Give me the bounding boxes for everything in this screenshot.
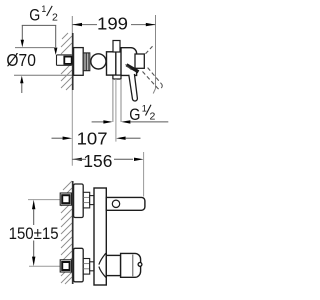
svg-text:G: G: [129, 106, 140, 124]
leader of G1/2 top with two drops: [22, 25, 56, 48]
dimension 199: [72, 13, 155, 93]
svg-text:107: 107: [77, 128, 108, 148]
union nut upper: [83, 192, 89, 208]
outlet centre extension line: [115, 79, 117, 142]
lever handle (solid position): [129, 74, 138, 101]
svg-text:150±15: 150±15: [9, 224, 59, 243]
lever handle (dashed alternate position): [143, 46, 163, 89]
valve body block: [107, 52, 116, 75]
lever neck (dark wedge): [127, 65, 139, 72]
svg-text:2: 2: [150, 111, 156, 123]
lever arm (bottom view, seen from above): [106, 197, 145, 210]
svg-text:2: 2: [52, 12, 58, 24]
wall surface line (top view): [72, 33, 74, 90]
dimension 156: [72, 151, 143, 197]
supply line lower: [29, 265, 64, 267]
supply line upper: [28, 199, 64, 201]
pipe stub lower (bottom view): [60, 260, 71, 272]
svg-text:1: 1: [142, 103, 147, 113]
wall surface line (bottom view): [72, 181, 74, 284]
ball joint: [91, 54, 106, 69]
button on lever arm: [112, 200, 119, 207]
label G1/2 (outlet): [129, 103, 155, 124]
svg-text:1: 1: [41, 4, 46, 14]
arrow onto pipe stub (G1/2): [54, 48, 57, 55]
escutcheon upper (bottom view): [74, 184, 84, 218]
dimension 150±15: [9, 200, 59, 267]
handle wedge on bar: [99, 253, 106, 277]
pipe stub upper (bottom view): [60, 193, 71, 205]
svg-text:Ø70: Ø70: [6, 50, 36, 70]
connector lower: [90, 262, 94, 271]
arrow onto escutcheon top line (Ø70 upper arrow): [21, 40, 24, 48]
svg-text:199: 199: [97, 13, 128, 33]
escutcheon (top view): [74, 48, 84, 76]
nub on dome end: [138, 263, 142, 267]
wall extension line down to 156 dim: [71, 90, 73, 166]
pipe stub behind wall (top view): [57, 55, 72, 65]
connector upper: [90, 196, 94, 205]
label G1/2 (top-left thread): [29, 4, 58, 25]
svg-text:156: 156: [83, 151, 112, 171]
cartridge dome (bottom view): [121, 253, 141, 277]
svg-text:G: G: [29, 7, 40, 25]
cartridge block (bottom view): [106, 255, 120, 275]
escutcheon lower (bottom view): [74, 248, 84, 281]
lever pivot knob: [135, 54, 144, 68]
outlet stub below body: [113, 75, 121, 79]
leader of outlet G1/2: [92, 120, 169, 123]
wall (top view) hatching: [61, 33, 72, 90]
top knob: [113, 41, 120, 53]
cartridge dome: [121, 48, 137, 76]
body bar (bottom view): [94, 188, 106, 285]
dimension 107: [52, 128, 141, 148]
serrated nut: [83, 53, 90, 71]
Ø70 dimension: [6, 48, 83, 93]
union nut lower: [83, 259, 89, 275]
dome end line: [132, 255, 134, 277]
wall hatching (bottom view): [61, 181, 72, 284]
outlet pipe walls: [112, 79, 114, 122]
